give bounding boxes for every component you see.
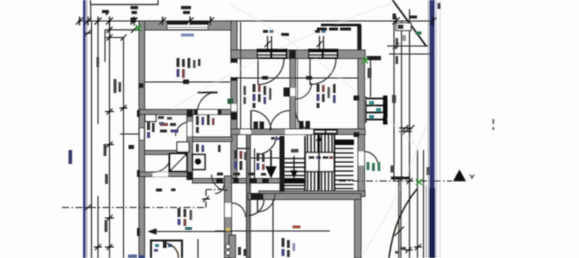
door leaf: living room bottom (198, 92, 218, 94)
kitchen label (vertical) (178, 208, 193, 226)
yellow junction speck (226, 228, 230, 232)
living room window label (181, 34, 194, 37)
dim text: top left cluster (102, 6, 191, 15)
garage label (vertical) (282, 238, 296, 257)
bedroom2 label (vertical columns) (317, 84, 336, 108)
garage inner horizontal line (215, 230, 330, 232)
small room inner stub (163, 241, 167, 249)
left vertical dimension line a (91, 21, 93, 258)
stairwell upper-left landing text (291, 149, 299, 153)
left horizontal tie line (120, 133, 140, 135)
internal dimension line: living room (145, 81, 230, 83)
hall door arc b (257, 194, 275, 212)
green junction blob on living wall (228, 99, 234, 105)
down arrow in hall (267, 150, 276, 177)
right blue plot border (430, 0, 435, 258)
door arc: kitchen (153, 154, 172, 173)
right wall line lower (399, 177, 401, 258)
wall: living/bedroom divider vertical (231, 21, 237, 63)
right dimension vertical a (393, 21, 395, 181)
wall: bedrooms top exterior (231, 50, 365, 59)
door gap: kitchen top wall (153, 172, 169, 177)
hall door arc c (215, 185, 224, 194)
right margin dim texts (368, 38, 430, 254)
centerline left (dash-dot) (62, 190, 228, 208)
door jamb blocks: living room bottom (194, 110, 198, 115)
heavy upper-storey outline top edge (321, 24, 361, 27)
right small stair bars (366, 97, 385, 124)
door jamb blobs living-bedroom wall (231, 59, 237, 63)
kitchen bottom dimension line with arrow (149, 229, 231, 234)
kitchen top dim specks (156, 189, 176, 192)
legend box left edge extension (90, 5, 92, 22)
top-right dimension box (396, 23, 411, 31)
paper edge shadow line (440, 0, 441, 258)
right thin vertical at 370 (370, 59, 372, 98)
centerline right (dash-dot) (339, 180, 452, 182)
window: left wall opening (140, 128, 145, 140)
stairwell main flight upper risers (308, 135, 333, 153)
door gap: bedroom2 bottom wall (296, 130, 316, 135)
left border shadow line (86, 0, 87, 258)
door arc bedroom1 bottom (251, 111, 271, 131)
dark fixture blocks bedroom2 corner (299, 121, 304, 129)
hall inner wall line (251, 157, 284, 159)
window: living room top wall (167, 22, 208, 30)
bottom-left cut text (128, 255, 145, 258)
wall junction blobs right wall (354, 96, 360, 101)
ticks on left vertical dim lines (84, 30, 128, 250)
centerline tick (202, 196, 210, 202)
left vertical dimension line d (104, 30, 106, 62)
door arc: living room bottom (198, 92, 218, 112)
bath labels (147, 122, 179, 138)
divider wall top junction dark (289, 51, 296, 59)
left blue plot border (83, 0, 86, 258)
green specks top right (416, 32, 422, 35)
wall: bedrooms bottom (231, 129, 365, 135)
small v mark right of triangle (470, 175, 474, 179)
hall wall dim text row (217, 173, 266, 176)
ticks on secondary left line (107, 26, 138, 41)
green survey tick top-left (136, 25, 142, 31)
garage door arc (248, 200, 264, 216)
long label above top wall (317, 28, 351, 31)
door gap in divider wall (290, 88, 295, 96)
top-left legend box (91, 0, 159, 5)
third left dimension line (105, 37, 124, 39)
door leaf: bedroom2 entry (309, 59, 311, 85)
wall: bedroom1/bedroom2 divider (290, 59, 296, 134)
door gap right wall to ladder room (359, 152, 365, 166)
hall wall jamb blocks (216, 179, 269, 183)
door gap: bedroom1 bottom wall (241, 130, 252, 135)
stairwell walk arrow (291, 156, 296, 177)
garage left wall line (272, 200, 274, 258)
top-right dimension line second (387, 45, 428, 47)
section marker triangle (453, 170, 466, 182)
stairwell left flight (285, 136, 306, 191)
left vertical dimension line c (109, 21, 111, 258)
wall: living room top (with window zone) (139, 21, 237, 30)
door arc: bath (176, 122, 190, 136)
heavy upper-storey outline right edge (357, 25, 361, 50)
right dimension vertical e (423, 150, 425, 258)
right dimension vertical d (417, 150, 419, 258)
right margin tiny mark (493, 119, 495, 130)
right dimension vertical c (409, 9, 411, 258)
wall: living/bedroom divider lower (231, 77, 237, 178)
wall: hall west vertical bottom widening (229, 235, 236, 258)
window extension ticks bedroom1 (265, 36, 272, 50)
door arc: closet on divider wall (296, 83, 312, 99)
door arc: divider bottom into bedroom1 (270, 111, 290, 131)
driveway arc bottom right (389, 189, 418, 258)
flur small specks (158, 116, 172, 125)
right dimension vertical b (401, 21, 403, 181)
dim line: bedroom2 vertical (297, 59, 299, 130)
sink box (177, 142, 189, 152)
wall: closet vertical (247, 134, 251, 258)
wall circles (columns in hall wall) (226, 244, 230, 248)
hall labels lower (196, 144, 221, 152)
green survey tick right corner (362, 58, 368, 64)
dim line: bedroom1 vertical (240, 22, 242, 129)
stairwell landing label (309, 156, 334, 159)
garage area text (290, 225, 292, 227)
hall door leaf b (257, 195, 259, 212)
wall: hall top horizontal (193, 137, 233, 142)
door block: bedroom1 entry (257, 49, 288, 59)
dark blob tick at x134 (131, 18, 137, 23)
shaft box with cross (170, 154, 188, 172)
stairwell left flight dark tread block (285, 179, 306, 184)
left vertical dimension line b (97, 21, 99, 124)
right border inner light line (436, 0, 437, 258)
wall: garage top (248, 194, 361, 200)
tiny nub right of blue band top (438, 3, 441, 9)
bottom mid dim specks (238, 247, 247, 256)
door arc: bedroom1 entry (258, 59, 284, 85)
door arc ladder room (364, 152, 378, 166)
wall: living room bottom (139, 110, 231, 115)
wall: bath mid horizontal (145, 151, 187, 155)
fixture blobs below arc (254, 122, 259, 130)
hall labels upper (196, 115, 214, 133)
wall stub right of corner (367, 56, 382, 60)
door gap: bath east wall (188, 122, 193, 136)
wall: hall west vertical (225, 176, 232, 258)
dimension ticks on top line (76, 17, 437, 26)
dim text: top right (409, 16, 417, 19)
garage red dim text (293, 226, 301, 229)
wall: hall lower top horizontal (193, 179, 303, 184)
secondary left dimension line (105, 29, 139, 31)
hall door arc kitchen (212, 175, 228, 191)
closet room labels (234, 150, 246, 170)
faint paper creases (170, 2, 428, 258)
left vertical dimension line b lower (97, 196, 99, 258)
small room door arc (164, 243, 179, 258)
thin vertical below small room right (197, 239, 199, 258)
right dimension vertical f (425, 185, 427, 258)
door arc: bedroom2 from hall (296, 111, 317, 132)
wall: kitchen top horizontal (139, 172, 193, 177)
teal specks above line (185, 227, 192, 230)
stairwell main flight lower risers (308, 172, 333, 192)
right blue border lower darker part (429, 188, 435, 258)
wall junction dark blob (187, 172, 194, 181)
tick on bedroom internal dim line (262, 76, 268, 80)
wall: bath east vertical (187, 115, 193, 177)
dim text: above bedroom2 door (315, 30, 326, 33)
internal dimension line: bedrooms (237, 77, 358, 79)
wall: left exterior (139, 21, 145, 258)
door arc: hall below bedroom1 (257, 136, 277, 155)
ticks on right vertical dim lines (393, 43, 422, 254)
green survey tick centerline (416, 179, 422, 185)
door leaf: bedroom1 entry (257, 59, 259, 85)
wall gap above left stair flight (285, 130, 304, 135)
right border outer thin line (427, 0, 430, 258)
stairwell main walk line (318, 135, 320, 190)
stairwell right flight (335, 135, 354, 192)
main top dimension line (78, 20, 434, 22)
bedroom1 dim text column (244, 86, 246, 104)
landing window block on bedroom bottom wall (313, 129, 338, 134)
small room bottom-left outline (151, 241, 182, 258)
stairwell left wall dark (280, 136, 285, 192)
top-right diagonal (393, 0, 427, 47)
left vertical dimension line e (123, 38, 125, 258)
left wall sill marks (137, 110, 140, 236)
window extension ticks bedroom2 (317, 36, 324, 50)
closet top line (237, 148, 250, 150)
hall door arc a (232, 203, 246, 217)
door text specks near arc (271, 137, 280, 140)
wall: garage right exterior (355, 196, 362, 258)
door gap: living to bedroom1 wall (232, 63, 237, 77)
stairwell landing box (306, 153, 335, 172)
door leaf bedroom1 bottom (250, 111, 252, 131)
stair right flight dark tread block (335, 140, 354, 146)
right short bar at 178 (391, 177, 410, 180)
door gap living-hall wall (232, 104, 237, 111)
small room specks (154, 244, 172, 252)
bedroom1 label (vertical columns) (253, 84, 272, 108)
hall door gap a (225, 203, 231, 217)
door gap: living room bottom wall (198, 110, 218, 114)
door arc: bedroom2 entry (310, 59, 336, 85)
door block: bedroom2 entry (308, 49, 339, 59)
wc labels mid (257, 153, 265, 170)
bath cupboard box (145, 115, 156, 122)
wc fixture (193, 155, 206, 170)
closet blocks on divider wall (bedroom1 side) (284, 88, 291, 97)
left margin rotated texts (69, 57, 135, 232)
right green label (367, 162, 381, 171)
closet right line (254, 149, 256, 184)
garage door blocks (251, 193, 264, 199)
living room label (vertical) (177, 58, 201, 78)
dimension box specks (398, 25, 404, 30)
dim text: above bedroom1 door (263, 30, 289, 36)
wall: building right exterior (358, 59, 365, 197)
wall: stairs bottom / garage top (259, 191, 365, 197)
